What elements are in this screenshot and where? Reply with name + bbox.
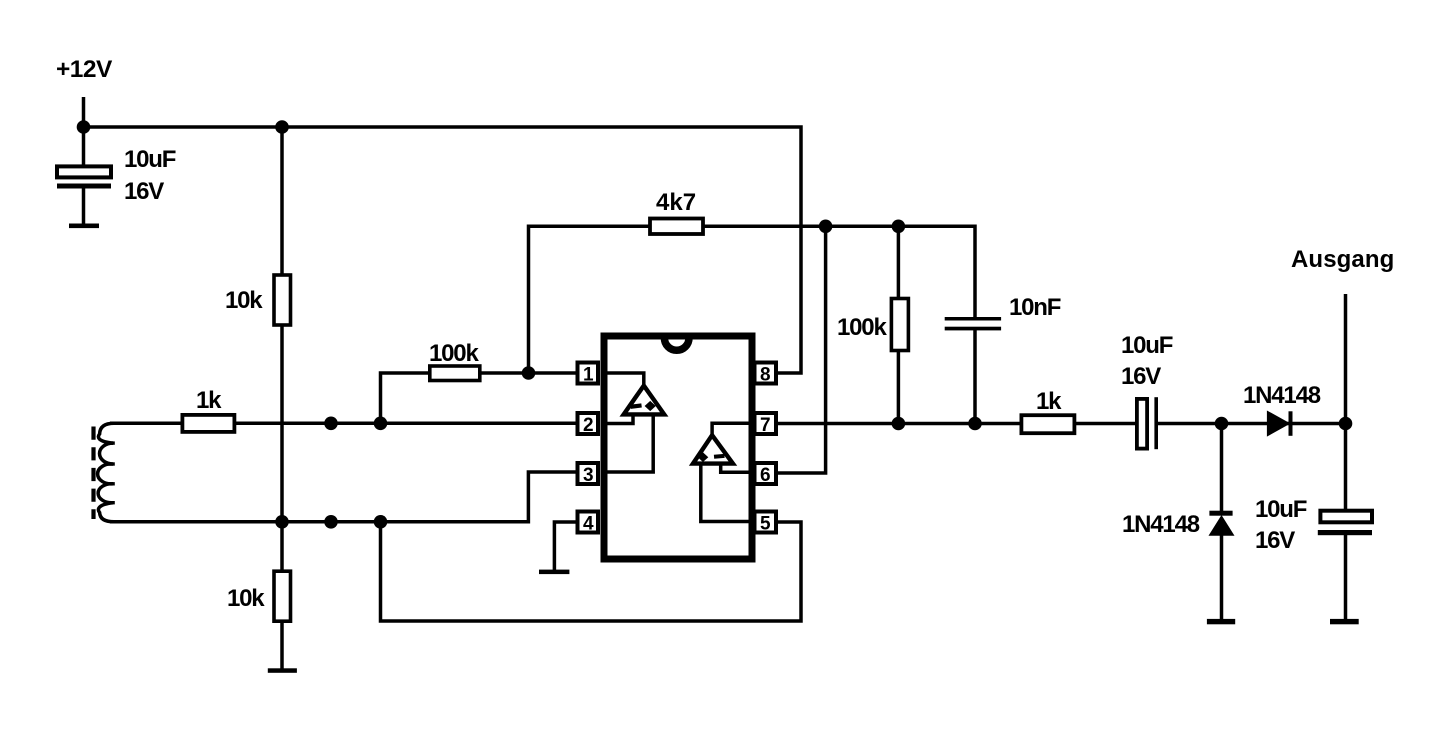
wire op-amp B plus input to pin 5 xyxy=(701,464,752,522)
wire op-amp B output to pin 7 xyxy=(712,423,752,435)
wire op-amp A output to pin 1 xyxy=(604,373,644,386)
diode D1 cathode bar xyxy=(1289,411,1293,436)
svg-text:3: 3 xyxy=(583,465,594,486)
op-amp B triangle xyxy=(693,435,733,463)
svg-text:16V: 16V xyxy=(1255,527,1295,554)
op-amp A triangle xyxy=(624,386,665,415)
wire C1 top lead xyxy=(82,127,86,167)
svg-text:10nF: 10nF xyxy=(1009,294,1061,321)
wire bottom coil wire xyxy=(110,472,580,522)
wire 100k vertical leads xyxy=(897,226,901,300)
svg-text:1k: 1k xyxy=(1036,388,1062,415)
node dot bottom wire b xyxy=(324,515,338,529)
wire after C2 to output node xyxy=(1158,422,1346,426)
op-amp A minus marker xyxy=(630,403,641,409)
svg-text:10uF: 10uF xyxy=(1255,496,1307,523)
svg-text:Ausgang: Ausgang xyxy=(1291,246,1394,273)
resistor 10k upper xyxy=(274,275,291,325)
ground C3 xyxy=(1330,619,1359,624)
wire 10k upper chain xyxy=(280,127,284,276)
node dot bottom wire a xyxy=(275,515,289,529)
node dot 100k out xyxy=(892,417,906,431)
svg-text:2: 2 xyxy=(583,415,594,436)
wire op-amp B minus input to pin 6 xyxy=(721,464,752,473)
wire op-amp A plus input to pin 3 xyxy=(604,414,653,472)
svg-text:4k7: 4k7 xyxy=(656,189,696,216)
op-amp A plus marker xyxy=(645,401,656,411)
capacitor 10nF plate top xyxy=(945,317,1001,321)
svg-text:16V: 16V xyxy=(124,178,164,205)
capacitor C2 10uF series plate left xyxy=(1137,399,1147,449)
wire 10k upper to bottom coil wire xyxy=(280,324,284,522)
node dot 4k7 node b xyxy=(892,220,906,234)
wire 10k lower to ground xyxy=(280,621,284,670)
svg-text:5: 5 xyxy=(760,514,771,535)
wire op-amp A minus input from pin 2 xyxy=(604,414,633,424)
wire 10nF bottom lead xyxy=(973,329,977,424)
svg-text:+12V: +12V xyxy=(56,56,113,83)
resistor 100k horizontal xyxy=(430,366,480,381)
node dot power junction xyxy=(77,120,91,134)
node dot D2 node xyxy=(1215,417,1229,431)
wire 10k lower top lead xyxy=(280,522,284,572)
svg-text:4: 4 xyxy=(583,514,594,535)
node dot 4k7 node a xyxy=(819,220,833,234)
svg-text:16V: 16V xyxy=(1121,363,1161,390)
node dot top wire a xyxy=(324,417,338,431)
svg-text:100k: 100k xyxy=(837,314,887,341)
pin 4 box xyxy=(578,512,599,535)
ground 10k lower xyxy=(268,668,297,673)
resistor 1k right xyxy=(1021,415,1074,433)
node dot 10nF out xyxy=(968,417,982,431)
capacitor C1 10uF plate top xyxy=(57,166,111,177)
node dot pin1 node xyxy=(522,366,536,380)
svg-text:8: 8 xyxy=(760,365,771,386)
coil cusp ticks xyxy=(105,443,115,503)
wire +12V rail xyxy=(84,127,802,373)
wire 4k7 branch xyxy=(529,226,976,373)
diode D1 1N4148 triangle xyxy=(1267,411,1289,436)
capacitor C2 plate right xyxy=(1154,397,1158,449)
resistor 100k vertical xyxy=(891,299,908,351)
wire pin 4 to ground xyxy=(554,522,580,570)
svg-text:7: 7 xyxy=(760,415,771,436)
capacitor C1 plate bottom xyxy=(57,184,111,189)
wire pin 6 link xyxy=(772,226,826,473)
capacitor C3 10uF output plate top xyxy=(1320,511,1372,523)
diode D2 1N4148 cathode bar xyxy=(1209,511,1232,516)
node dot rail to 10k xyxy=(275,120,289,134)
wire output riser Ausgang xyxy=(1344,294,1348,424)
ground pin 4 xyxy=(539,570,569,575)
wire D2 to ground xyxy=(1220,535,1224,621)
wire bottom loop pin5 xyxy=(381,522,802,621)
resistor 4k7 xyxy=(650,219,703,235)
pin 8 box xyxy=(755,363,777,386)
node dot bottom wire c xyxy=(374,515,388,529)
svg-text:1k: 1k xyxy=(196,387,222,414)
svg-text:10uF: 10uF xyxy=(1121,332,1173,359)
wire pin 7 output line xyxy=(772,422,1137,426)
ground C1 xyxy=(69,224,99,229)
wire C1 bottom lead xyxy=(82,188,86,225)
wire +12V stub xyxy=(82,97,86,127)
svg-text:1: 1 xyxy=(583,365,594,386)
op-amp U1 IC body xyxy=(604,336,752,559)
pin 6 box xyxy=(755,463,777,486)
coil core dashed line xyxy=(91,427,95,520)
wire top coil wire to pin 2 xyxy=(110,422,580,426)
capacitor C3 plate bottom xyxy=(1318,530,1372,535)
IC notch xyxy=(664,338,689,350)
wire D2 branch down xyxy=(1220,424,1224,514)
resistor 10k lower xyxy=(274,571,291,621)
capacitor 10nF plate bottom xyxy=(945,327,1001,331)
svg-text:1N4148: 1N4148 xyxy=(1122,511,1200,538)
pin 1 box xyxy=(578,363,599,386)
ground D2 xyxy=(1207,619,1235,624)
diode D2 triangle xyxy=(1209,516,1233,535)
pin 5 box xyxy=(755,512,777,535)
pin 2 box xyxy=(578,413,599,436)
svg-text:10uF: 10uF xyxy=(124,146,176,173)
svg-text:6: 6 xyxy=(760,465,771,486)
svg-text:10k: 10k xyxy=(225,287,263,314)
op-amp B minus marker xyxy=(714,454,725,459)
pin 3 box xyxy=(578,463,599,486)
svg-text:1N4148: 1N4148 xyxy=(1243,382,1321,409)
wire output to C3 xyxy=(1344,424,1348,513)
wire C3 to ground xyxy=(1344,534,1348,621)
coil L pickup winding xyxy=(98,423,134,443)
svg-text:100k: 100k xyxy=(429,340,479,367)
resistor 1k left xyxy=(182,415,234,432)
wire pin1 node xyxy=(381,373,581,423)
pin 7 box xyxy=(755,413,777,436)
op-amp B plus marker xyxy=(698,452,709,462)
node dot top wire b xyxy=(374,417,388,431)
svg-text:10k: 10k xyxy=(227,585,265,612)
node dot output node xyxy=(1339,417,1353,431)
